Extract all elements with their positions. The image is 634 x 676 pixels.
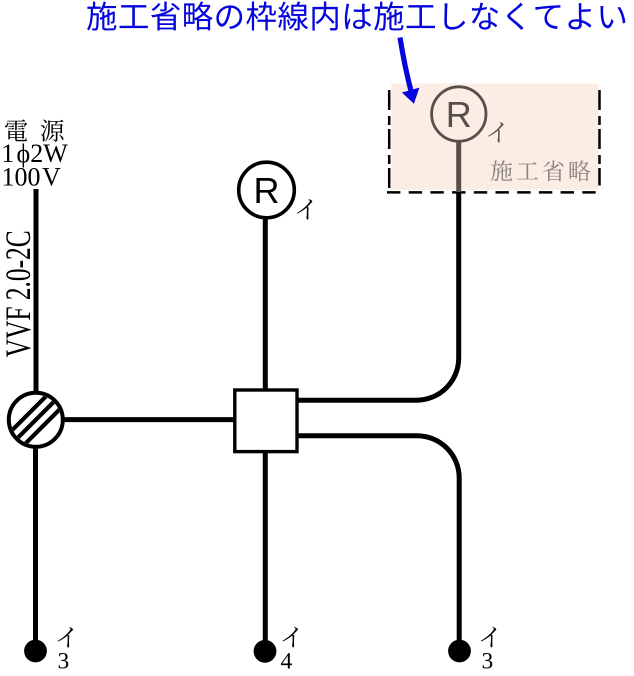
wire: hatched circle to junction box — [62, 417, 235, 422]
power point (hatched circle) — [2, 380, 69, 460]
施工省略 caption — [491, 160, 591, 181]
svg-text:R: R — [254, 170, 280, 211]
dashed border bottom — [387, 191, 601, 194]
dashed border right — [598, 90, 601, 186]
svg-text:VVF 2.0-2C: VVF 2.0-2C — [0, 230, 38, 357]
wire: hatched circle down to left lamp — [33, 446, 38, 641]
junction box — [235, 390, 297, 452]
lamp outlet left (dot) — [24, 640, 47, 663]
svg-text:100V: 100V — [2, 162, 62, 191]
イ label (middle lamp) — [297, 199, 312, 219]
wire: junction box down to middle lamp — [263, 452, 268, 641]
note: instruction text — [87, 1, 625, 30]
power source label — [5, 119, 27, 141]
lamp R (middle) circle — [239, 162, 295, 218]
lamp R (omitted, gray) stem — [456, 142, 461, 192]
svg-text:3: 3 — [482, 649, 494, 675]
svg-text:4: 4 — [281, 649, 293, 675]
lamp R (omitted, gray) circle — [432, 87, 486, 141]
construction-omission zone (peach) — [391, 84, 598, 190]
イ label (gray lamp) — [488, 122, 503, 142]
wire: from omitted lamp down, curve to junction box — [297, 192, 459, 400]
lamp outlet middle (dot) — [254, 640, 277, 663]
svg-text:3: 3 — [58, 649, 70, 675]
arrow (blue callout) — [400, 38, 412, 94]
svg-text:R: R — [446, 94, 472, 135]
lamp outlet right (dot) — [448, 640, 471, 663]
lamp R (middle) stem — [263, 218, 268, 390]
wire: power feed vertical — [34, 189, 39, 394]
dashed border left — [388, 90, 391, 192]
wire: from junction box right, curve down to bottom lamp — [297, 436, 459, 641]
